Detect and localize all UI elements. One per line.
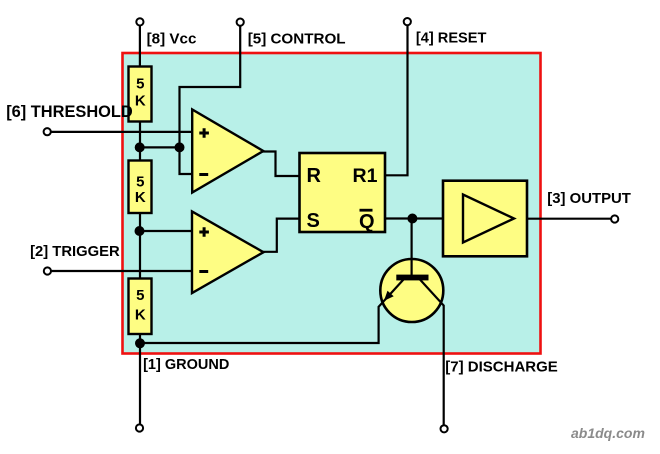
svg-text:ab1dq.com: ab1dq.com	[571, 425, 645, 441]
svg-text:[7] DISCHARGE: [7] DISCHARGE	[445, 359, 558, 376]
svg-text:[5] CONTROL: [5] CONTROL	[248, 30, 346, 47]
svg-text:[1] GROUND: [1] GROUND	[143, 357, 229, 373]
svg-text:[3] OUTPUT: [3] OUTPUT	[547, 191, 631, 207]
svg-text:5: 5	[136, 76, 144, 93]
svg-text:R1: R1	[353, 165, 378, 187]
svg-text:[6] THRESHOLD: [6] THRESHOLD	[6, 103, 133, 121]
svg-text:Q: Q	[359, 211, 375, 233]
svg-text:5: 5	[136, 287, 144, 304]
svg-text:[8] Vcc: [8] Vcc	[147, 30, 197, 47]
svg-text:K: K	[135, 93, 146, 110]
svg-text:5: 5	[136, 174, 144, 191]
svg-text:K: K	[135, 189, 146, 206]
svg-text:[4] RESET: [4] RESET	[416, 31, 487, 47]
svg-text:R: R	[307, 165, 322, 187]
svg-text:S: S	[307, 210, 320, 232]
svg-text:[2] TRIGGER: [2] TRIGGER	[30, 244, 120, 260]
svg-text:K: K	[135, 307, 146, 324]
